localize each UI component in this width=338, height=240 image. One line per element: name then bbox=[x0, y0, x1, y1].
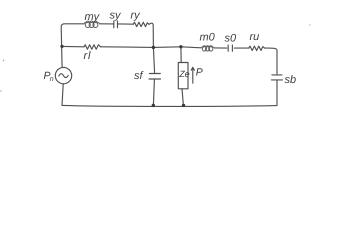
svg-text:ry: ry bbox=[131, 10, 142, 22]
svg-text:sf: sf bbox=[134, 70, 144, 82]
svg-text:ru: ru bbox=[250, 31, 260, 43]
svg-text:my: my bbox=[85, 11, 101, 23]
svg-text:m0: m0 bbox=[200, 32, 216, 44]
svg-text:s0: s0 bbox=[225, 33, 238, 45]
svg-text:rl: rl bbox=[84, 50, 92, 62]
svg-text:P: P bbox=[196, 67, 203, 79]
svg-text:Ze: Ze bbox=[178, 69, 190, 79]
svg-text:sy: sy bbox=[110, 10, 123, 22]
svg-text:sb: sb bbox=[285, 74, 297, 86]
svg-text:n: n bbox=[50, 76, 54, 83]
